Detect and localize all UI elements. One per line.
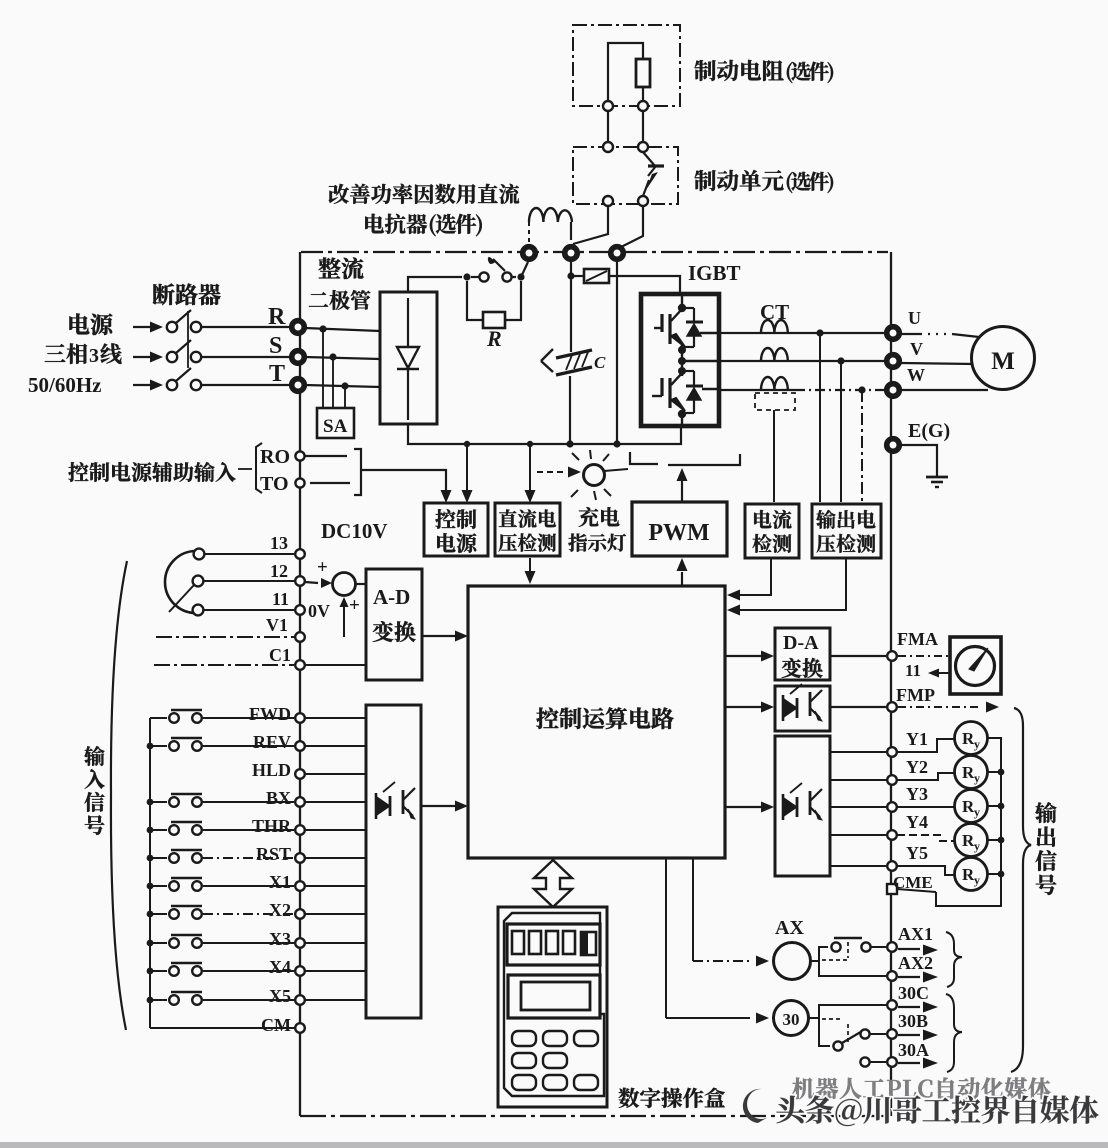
terminal AX2: [887, 971, 897, 981]
30 brace: [946, 994, 962, 1072]
wire HLD into isolator: [305, 773, 366, 775]
terminal CM: [295, 1023, 305, 1033]
input switch THR: [150, 829, 167, 831]
brake chopper transistor Q: [648, 164, 664, 167]
phase V wire: [719, 360, 890, 362]
wire switch X3 to terminal: [203, 942, 294, 944]
wire Y1 to relay 1: [897, 739, 954, 752]
terminal X3: [295, 938, 305, 948]
W voltage sense line: [861, 390, 863, 502]
terminal braking unit bottom right: [638, 196, 648, 206]
resistor DB-R leads: [608, 43, 643, 101]
control-operator double arrow: [534, 860, 572, 907]
RO/TO left bracket: [256, 443, 262, 493]
svg-text:V1: V1: [266, 615, 288, 635]
wire control to relay 30: [665, 858, 667, 1018]
output isolator box: [775, 736, 830, 876]
relay Ry5: [955, 858, 988, 891]
wire resistor box to braking unit left: [607, 111, 609, 142]
wire isolator to Y3: [830, 806, 886, 808]
wire RO to connector: [305, 455, 347, 457]
svg-text:30A: 30A: [898, 1040, 929, 1060]
fuse F: [571, 275, 584, 277]
svg-text:AX: AX: [775, 917, 804, 939]
30 changeover contact: [833, 1041, 842, 1050]
label 控制电源辅助输入: [68, 462, 88, 482]
wire pot to 12: [204, 580, 294, 582]
wire output voltage detector to control circuit: [739, 558, 846, 610]
30C external arrow: [898, 1006, 920, 1008]
external C1 wire: [154, 664, 294, 666]
rectifier diode symbol D: [407, 298, 409, 347]
wire fuse to IGBT box top: [609, 276, 680, 292]
FMP isolator box: [775, 686, 830, 731]
braking resistor element: [636, 59, 650, 87]
dashed lead coil to P1: [528, 222, 530, 247]
svg-text:Y3: Y3: [906, 784, 928, 804]
FMA external wire to meter: [898, 655, 949, 657]
wire SA lead from S: [332, 357, 334, 408]
wire TO to connector: [310, 482, 350, 484]
wire bus to CM: [150, 1027, 294, 1029]
terminal FMP: [887, 702, 897, 712]
bottom gray bar: [0, 1142, 1108, 1148]
phase W wire: [719, 389, 795, 391]
input optocoupler symbol: [375, 793, 378, 819]
30 contact feed: [808, 1005, 886, 1018]
display cursor block: [581, 932, 596, 955]
svg-text:50/60Hz: 50/60Hz: [28, 373, 102, 397]
terminal 13: [295, 549, 305, 559]
frequency meter: [950, 637, 1001, 694]
svg-text:T: T: [269, 361, 285, 387]
svg-text:13: 13: [270, 533, 288, 553]
svg-text:X3: X3: [269, 929, 291, 949]
CT sense line to current detector: [773, 410, 775, 502]
wire rectifier top to bypass: [408, 277, 462, 292]
wire control to FMP isolator: [725, 706, 761, 708]
junction dot S-SA: [329, 353, 336, 360]
terminal on braking resistor box bottom left: [603, 101, 613, 111]
terminal 12: [295, 576, 305, 586]
DC reactor coil L: [529, 208, 572, 222]
IGBT inverter box: [641, 294, 719, 426]
wire connector to control supply: [361, 470, 446, 496]
circuit breaker pole R: [167, 322, 177, 332]
relay Ry2: [955, 756, 988, 789]
IGBT lower transistor Q2: [652, 395, 662, 397]
phase U wire to CT: [719, 332, 890, 334]
inverter enclosure top edge (P1/P+/DB terminal rail): [301, 251, 888, 253]
relay AX coil: [774, 943, 811, 980]
wire X3 into isolator: [305, 942, 366, 944]
operator keypad keys: [512, 1031, 536, 1046]
svg-text:BX: BX: [266, 788, 291, 808]
wire isolator to Y2: [830, 779, 886, 781]
AX2 external arrow: [898, 976, 920, 978]
wire S to rectifier: [305, 357, 380, 359]
dashed box around W-phase CT: [755, 393, 795, 410]
junction dot U sense: [816, 329, 823, 336]
wire current detector to control circuit: [739, 558, 771, 595]
charging resistor R: [483, 312, 505, 328]
wire breaker to R terminal: [202, 326, 292, 328]
terminal braking unit top left: [603, 142, 613, 152]
seven-segment digits 0000: [512, 931, 524, 954]
FMP external wire: [898, 706, 982, 708]
wire isolator to Y1: [830, 751, 886, 753]
lead coil right to P+: [570, 222, 572, 240]
junction dot W sense: [858, 386, 865, 393]
junction dot T-SA: [341, 382, 348, 389]
wire T to rectifier: [305, 385, 380, 387]
input signal bus left: [149, 718, 151, 1028]
svg-text:30B: 30B: [898, 1011, 928, 1031]
label 制动电阻(选件): [695, 60, 716, 81]
inverter enclosure right edge (terminal strip): [890, 252, 892, 1116]
gate drive bus brackets: [630, 452, 658, 464]
AX link dashes: [822, 959, 850, 961]
terminal on braking resistor box bottom right: [638, 101, 648, 111]
wire A-D to control circuit: [422, 635, 456, 637]
terminal Y5: [887, 861, 897, 871]
terminal REV: [295, 741, 305, 751]
rectifier diode bridge box: [380, 292, 437, 424]
wire BX into isolator: [305, 801, 366, 803]
wire X2 into isolator: [305, 913, 366, 915]
svg-text:V: V: [910, 339, 923, 359]
wire lamp to gate bus: [604, 469, 628, 471]
30A external arrow: [898, 1062, 920, 1064]
svg-text:D-A: D-A: [783, 632, 819, 654]
frequency setting potentiometer: [165, 551, 196, 613]
svg-text:Y5: Y5: [906, 843, 928, 863]
circuit breaker pole S: [167, 352, 177, 362]
svg-text:CM: CM: [261, 1015, 291, 1035]
terminal TO: [295, 478, 304, 487]
svg-text:S: S: [269, 333, 282, 359]
wire SA lead from T: [344, 386, 346, 408]
terminal RST: [295, 853, 305, 863]
terminal FWD: [295, 713, 305, 723]
junction dot R-SA: [319, 325, 326, 332]
AX brace: [946, 932, 962, 987]
AX1 external arrow: [898, 948, 920, 950]
label 输入信号 vertical: [84, 746, 104, 766]
wire capacitor to negative rail: [569, 376, 571, 444]
relay Ry1: [955, 722, 988, 755]
svg-text:X4: X4: [269, 957, 291, 977]
svg-text:TO: TO: [260, 473, 289, 495]
potentiometer wiper: [169, 585, 194, 612]
input switch BX: [150, 801, 167, 803]
svg-text:y: y: [974, 737, 980, 751]
svg-text:0V: 0V: [308, 601, 330, 621]
terminal V1: [295, 632, 305, 642]
phase W line inside box: [702, 388, 719, 390]
input switch X3: [150, 942, 167, 944]
junction dot DB on rail: [613, 440, 620, 447]
external V1 wire: [156, 636, 294, 638]
wire REV into isolator: [305, 745, 366, 747]
junction dot relay bus: [998, 871, 1005, 878]
braking unit option dashed box: [573, 147, 678, 204]
wire THR into isolator: [305, 829, 366, 831]
wire X1 into isolator: [305, 885, 366, 887]
svg-text:SA: SA: [323, 416, 348, 437]
terminal 30C: [887, 1000, 897, 1010]
input switch X2: [150, 913, 167, 915]
bypass relay contact 73: [479, 272, 488, 281]
PWM box: [632, 502, 727, 556]
wire switch REV to terminal: [203, 745, 294, 747]
charging resistor R loop: [467, 281, 483, 320]
svg-text:HLD: HLD: [252, 760, 291, 780]
input switch FWD: [150, 717, 167, 719]
current detector box 电流检测: [745, 504, 799, 558]
30B external arrow: [898, 1034, 920, 1036]
terminal Y2: [887, 775, 897, 785]
junction dot fuse tap: [567, 272, 574, 279]
svg-text:y: y: [974, 839, 980, 853]
wire control to D-A: [725, 655, 761, 657]
terminal V: [887, 355, 900, 368]
terminal CME: [887, 884, 897, 894]
svg-text:AX2: AX2: [898, 953, 933, 973]
CT coil phase V: [761, 348, 788, 361]
source arrow R phase: [133, 326, 150, 328]
terminal DB: [611, 247, 624, 260]
terminal HLD: [295, 769, 305, 779]
junction dot relay bus: [998, 769, 1005, 776]
terminal P(+): [565, 247, 578, 260]
junction dot relay bus: [998, 837, 1005, 844]
svg-text:FWD: FWD: [249, 704, 291, 724]
svg-text:X5: X5: [269, 986, 291, 1006]
terminal X1: [295, 881, 305, 891]
wire Y2 to relay 2: [897, 773, 954, 780]
wire RST into isolator: [305, 857, 366, 859]
input switch X5: [150, 999, 167, 1001]
svg-text:Y1: Y1: [906, 729, 928, 749]
30 link dashes: [822, 1018, 843, 1020]
svg-text:Y2: Y2: [906, 757, 928, 777]
svg-text:C1: C1: [269, 645, 291, 665]
input isolator box: [366, 705, 421, 1018]
terminal Y3: [887, 802, 897, 812]
svg-text:PWM: PWM: [648, 520, 709, 546]
CT coil phase W: [761, 377, 788, 390]
smoothing capacitor C: [541, 349, 553, 361]
svg-text:RO: RO: [260, 446, 290, 468]
wire switch X5 to terminal: [203, 999, 294, 1001]
svg-text:FMA: FMA: [897, 629, 938, 649]
svg-text:+: +: [349, 595, 360, 616]
svg-text:AX1: AX1: [898, 924, 933, 944]
wire V to motor: [901, 363, 974, 364]
D-A converter box: [775, 628, 830, 680]
negative DC rail: [408, 424, 681, 444]
wire Y5 to relay 5: [897, 866, 954, 875]
svg-text:RST: RST: [256, 844, 291, 864]
watermark gray text: [793, 1077, 815, 1099]
label 充电指示灯: [579, 507, 599, 527]
operator LCD window: [508, 975, 600, 1018]
svg-text:REV: REV: [253, 732, 291, 752]
terminal Y4: [887, 830, 897, 840]
terminal C1: [295, 660, 305, 670]
label 输出信号 vertical: [1035, 802, 1056, 823]
IGBT upper transistor Q1: [678, 304, 686, 312]
terminal E(G): [887, 439, 900, 452]
wire X4 into isolator: [305, 970, 366, 972]
wire switch X2 to terminal: [203, 913, 294, 915]
terminal U: [887, 327, 900, 340]
CT coil phase U: [761, 320, 788, 333]
terminal X4: [295, 966, 305, 976]
svg-text:A-D: A-D: [373, 585, 410, 609]
label 改善功率因数用直流电抗器(选件): [329, 184, 349, 204]
terminal AX1: [887, 942, 897, 952]
wire breaker to T terminal: [202, 384, 292, 386]
svg-text:y: y: [974, 805, 980, 819]
surge absorber SA box: [317, 408, 354, 438]
label 数字操作盒: [619, 1088, 640, 1108]
wire DC bus to voltage detector: [529, 444, 531, 496]
input brace: [111, 561, 127, 1030]
wire W to motor: [901, 389, 988, 391]
control power supply box 控制电源: [424, 503, 488, 556]
V voltage sense line: [840, 361, 842, 502]
wire DC rail to control supply: [466, 444, 468, 496]
ground symbol: [926, 476, 948, 479]
connector bracket: [354, 449, 361, 495]
A-D converter box: [366, 569, 422, 680]
terminal X2: [295, 909, 305, 919]
charging lamp feed: [537, 471, 567, 473]
wire control circuit to PWM: [681, 572, 683, 586]
relay Ry3: [955, 790, 988, 823]
svg-text:3: 3: [89, 345, 99, 367]
label 电源: [69, 313, 89, 334]
wire SA lead from R: [322, 329, 324, 408]
svg-text:C: C: [594, 353, 606, 372]
lamp rays: [572, 453, 579, 460]
wire isolator to Y5: [830, 865, 886, 867]
label 三相3线: [45, 344, 66, 362]
wire pot to 11: [204, 609, 294, 611]
IGBT lower freewheel diode D2: [683, 370, 694, 372]
wire switch BX to terminal: [203, 801, 294, 803]
wire switch X4 to terminal: [203, 970, 294, 972]
wire C1 into A-D: [305, 664, 366, 666]
wire Y3 to relay 3: [897, 806, 954, 808]
input switch REV: [150, 745, 167, 747]
wire R to rectifier: [305, 328, 380, 331]
svg-text:y: y: [974, 771, 980, 785]
main control logic box 控制运算电路: [468, 586, 725, 858]
breaker mechanical tie: [187, 311, 189, 368]
terminal 30A: [887, 1057, 897, 1067]
wire switch FWD to terminal: [203, 717, 294, 719]
label 断路器: [153, 283, 175, 305]
terminal S: [292, 351, 305, 364]
input switch X4: [150, 970, 167, 972]
motor M: [972, 327, 1035, 390]
summing node wire from 12: [305, 582, 318, 583]
wire voltage detector to control circuit: [529, 558, 531, 577]
svg-text:IGBT: IGBT: [688, 261, 741, 285]
junction dot V sense: [837, 357, 844, 364]
AX contact: [811, 947, 828, 961]
wire isolator to FMP: [830, 706, 886, 708]
watermark dark text 头条@川哥工控界自媒体: [776, 1096, 804, 1124]
wire U to motor: [901, 333, 920, 335]
inverter enclosure left edge (terminal strip): [299, 252, 301, 1116]
output voltage detector box 输出电压检测: [812, 504, 881, 558]
svg-text:M: M: [991, 348, 1015, 375]
svg-text:THR: THR: [252, 816, 292, 836]
wire pot to 13: [205, 553, 294, 555]
wire DB down to negative rail: [616, 262, 618, 444]
terminal 11: [295, 605, 305, 615]
wire AX to AX2: [819, 961, 886, 976]
svg-text:11: 11: [272, 589, 289, 609]
IGBT upper freewheel diode D1: [683, 307, 694, 309]
digital operator outer case: [498, 907, 607, 1107]
source arrow T phase: [133, 384, 150, 386]
terminal Y1: [887, 747, 897, 757]
wire bypass to P1: [521, 262, 528, 277]
svg-text:W: W: [907, 365, 925, 385]
wire switch X1 to terminal: [203, 885, 294, 887]
relay Ry4: [955, 824, 988, 857]
label 整流二极管: [318, 257, 340, 278]
wire P+ down to capacitor: [570, 262, 572, 352]
terminal braking unit bottom left: [603, 196, 613, 206]
wire control to AX: [692, 858, 694, 961]
wire braking unit left bottom to P+ terminal: [573, 206, 608, 244]
terminal RO: [295, 451, 304, 460]
DC voltage detector box 直流电压检测: [495, 503, 560, 556]
wire FWD into isolator: [305, 717, 366, 719]
U voltage sense line: [819, 333, 821, 502]
svg-text:R: R: [486, 326, 502, 351]
phase U line inside box: [700, 332, 719, 334]
svg-text:X1: X1: [269, 872, 291, 892]
svg-text:DC10V: DC10V: [321, 519, 388, 543]
junction dot relay bus: [998, 803, 1005, 810]
svg-text:R: R: [268, 304, 286, 330]
output signals brace: [1011, 708, 1031, 1072]
wire braking unit right bottom to DB terminal: [619, 206, 643, 248]
relay 30 coil: [774, 1001, 809, 1036]
terminal FMA: [887, 651, 897, 661]
wire X5 into isolator: [305, 999, 366, 1001]
junction dot cap on rail: [566, 440, 573, 447]
junction dot bypass left: [463, 273, 470, 280]
svg-text:X2: X2: [269, 900, 291, 920]
wire CME to common bus: [897, 889, 936, 892]
wire E(G) to ground: [901, 445, 937, 476]
wire switch THR to terminal: [203, 829, 294, 831]
svg-text:30: 30: [783, 1010, 800, 1029]
svg-text:12: 12: [270, 561, 288, 581]
summing node circle: [333, 573, 356, 596]
terminal T: [292, 379, 305, 392]
operator display bezel: [507, 924, 600, 965]
terminal braking unit top right: [638, 142, 648, 152]
